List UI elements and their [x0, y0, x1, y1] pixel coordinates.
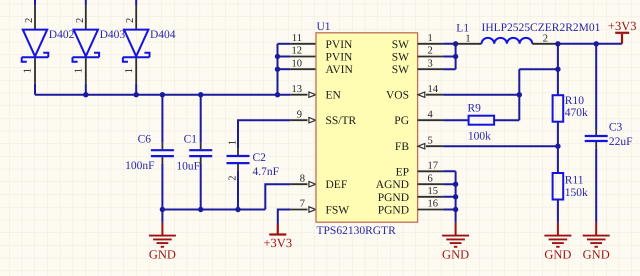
pin 7 lead FSW: [290, 209, 307, 211]
svg-text:SS/TR: SS/TR: [326, 115, 357, 127]
pin: C1 bottom lead: [200, 157, 202, 164]
svg-text:FSW: FSW: [326, 205, 350, 217]
wire: FB node to R11: [557, 146, 559, 173]
pin: L1 pin 1 lead: [456, 43, 482, 45]
ground under IC: [442, 223, 469, 247]
svg-text:10uF: 10uF: [176, 161, 200, 173]
pin: C6 top lead: [161, 143, 163, 150]
svg-text:D402: D402: [49, 29, 75, 41]
svg-text:1: 1: [228, 140, 239, 145]
svg-text:C1: C1: [184, 134, 198, 146]
svg-text:D404: D404: [150, 29, 176, 41]
wire: C2 lower: [237, 170, 239, 209]
pin 11 lead: [290, 43, 316, 45]
svg-text:1: 1: [23, 68, 34, 73]
svg-text:VOS: VOS: [386, 90, 409, 102]
svg-text:3: 3: [428, 58, 433, 69]
svg-text:+3V3: +3V3: [264, 236, 293, 250]
IC U1 body: [316, 33, 418, 222]
junction dot gnd column 208.3: [453, 207, 458, 212]
svg-text:SW: SW: [392, 39, 409, 51]
ground under C3: [583, 223, 610, 247]
svg-text:2: 2: [428, 46, 433, 57]
pin: C3 bottom lead: [595, 142, 597, 148]
svg-text:AVIN: AVIN: [326, 64, 354, 76]
pin 6 lead AGND: [418, 183, 444, 185]
svg-text:1: 1: [465, 34, 470, 45]
svg-text:EN: EN: [326, 90, 342, 102]
ground under C6: [149, 223, 176, 247]
svg-text:12: 12: [292, 46, 303, 57]
junction dot SW column mid: [453, 54, 458, 59]
wire: SW column: [455, 44, 457, 69]
pin: D402 pin 2 lead: [34, 6, 36, 30]
resistor R10: [553, 95, 564, 122]
pin 7 input arrow: [309, 207, 316, 212]
pin 12 lead: [290, 56, 316, 58]
diode D403: [73, 30, 100, 62]
junction dot C2 on bottom bus: [235, 207, 240, 212]
junction dot jog node: [555, 67, 560, 72]
pin 8 lead DEF: [290, 183, 307, 185]
resistor R9: [469, 116, 495, 125]
pin: D403 pin 1 lead: [85, 58, 87, 84]
svg-text:PGND: PGND: [378, 205, 409, 217]
svg-text:4.7nF: 4.7nF: [253, 166, 280, 178]
svg-text:7: 7: [300, 199, 305, 210]
junction dot C3 branch: [594, 41, 599, 46]
svg-text:GND: GND: [149, 247, 176, 261]
pin 8 input arrow: [309, 182, 316, 187]
pin: L1 pin 2 lead: [532, 43, 558, 45]
svg-text:DEF: DEF: [326, 179, 348, 191]
wire: C3 upper: [595, 44, 597, 130]
svg-text:D403: D403: [100, 29, 126, 41]
wire: PG to R9: [443, 119, 469, 121]
wire: D403 to bus: [85, 84, 87, 95]
pin: C2 top lead: [237, 148, 239, 155]
wire: bottom bus to GND: [161, 210, 163, 223]
pin 15 lead PGND: [418, 196, 444, 198]
wire: output node down: [557, 44, 559, 95]
wire: riser to PVIN/AVIN pins: [277, 44, 279, 95]
wire: C2 to SS/TR: [238, 120, 290, 148]
svg-text:R9: R9: [468, 103, 482, 115]
wire: bottom bus: [162, 209, 265, 211]
svg-text:100nF: 100nF: [125, 160, 154, 172]
svg-text:150k: 150k: [565, 187, 588, 199]
svg-text:GND: GND: [583, 247, 610, 261]
svg-text:U1: U1: [317, 21, 331, 33]
wire: D403 top stub: [85, 0, 87, 6]
svg-text:R11: R11: [565, 175, 584, 187]
capacitor C6: [151, 150, 174, 156]
junction dot riser on bus: [275, 92, 280, 97]
pin: C2 bottom lead: [237, 164, 239, 170]
pin 3 lead SW: [418, 68, 444, 70]
wire: VOS to column: [443, 94, 519, 96]
pin 13 lead EN: [290, 94, 307, 96]
svg-text:1: 1: [73, 68, 84, 73]
svg-text:C2: C2: [253, 152, 267, 164]
wire: FSW to +3V3: [278, 210, 291, 224]
wire: C6 upper: [161, 95, 163, 143]
pin 2 lead SW: [418, 56, 444, 58]
svg-text:16: 16: [428, 199, 439, 210]
wire: input bus to EN: [35, 94, 290, 96]
svg-text:470k: 470k: [565, 107, 588, 119]
wire: C1 lower: [200, 164, 202, 210]
svg-text:1: 1: [428, 33, 433, 44]
capacitor C3: [585, 136, 608, 141]
pin 13 input arrow: [309, 92, 316, 97]
svg-text:9: 9: [297, 109, 302, 120]
svg-text:10: 10: [292, 58, 303, 69]
svg-text:GND: GND: [442, 247, 469, 261]
pin 5 lead FB: [426, 145, 443, 147]
svg-text:FB: FB: [395, 141, 409, 153]
svg-text:2: 2: [24, 18, 35, 23]
pin: D404 pin 1 lead: [135, 58, 137, 84]
pin: C6 bottom lead: [161, 157, 163, 164]
junction dot gnd column 195.6: [453, 194, 458, 199]
svg-text:15: 15: [428, 186, 439, 197]
ground under R11: [544, 223, 571, 247]
svg-text:2: 2: [543, 34, 548, 45]
wire: FB to divider: [443, 145, 558, 147]
svg-text:GND: GND: [544, 247, 571, 261]
svg-text:4: 4: [428, 109, 434, 120]
junction dot C1 on bus: [198, 92, 203, 97]
wire: C1 upper: [200, 95, 202, 143]
junction dot VOS: [517, 92, 522, 97]
svg-text:SW: SW: [392, 64, 409, 76]
junction dot output node: [555, 41, 560, 46]
svg-text:+3V3: +3V3: [608, 19, 637, 33]
junction dot C1 on bottom bus: [198, 207, 203, 212]
junction dot D403 on bus: [83, 92, 88, 97]
wire: SW pins to column: [443, 44, 456, 69]
svg-text:13: 13: [292, 84, 303, 95]
pin: C3 top lead: [595, 130, 597, 136]
junction dot D404 on bus: [134, 92, 139, 97]
wire: R9 to column: [494, 119, 519, 121]
pin: D403 pin 2 lead: [85, 6, 87, 30]
wire: R10 top stub: [557, 94, 559, 96]
pin: C1 top lead: [200, 143, 202, 150]
wire: C3 lower: [595, 148, 597, 222]
junction dot C6 on bus: [160, 92, 165, 97]
svg-text:C6: C6: [138, 134, 152, 146]
junction dot pin12 riser: [275, 54, 280, 59]
svg-text:SW: SW: [392, 52, 409, 64]
wire: to pin 12: [278, 56, 291, 58]
svg-text:6: 6: [428, 173, 433, 184]
pin 14 input arrow: [418, 92, 425, 97]
pin 4 lead PG: [418, 119, 444, 121]
wire: R10 to FB node: [557, 122, 559, 147]
svg-text:PGND: PGND: [378, 192, 409, 204]
svg-text:R10: R10: [565, 95, 584, 107]
junction dot gnd column 183: [453, 182, 458, 187]
svg-text:22uF: 22uF: [609, 136, 633, 148]
pin 16 lead PGND: [418, 209, 444, 211]
svg-text:2: 2: [75, 18, 86, 23]
svg-text:PVIN: PVIN: [326, 52, 354, 64]
svg-text:PVIN: PVIN: [326, 39, 354, 51]
svg-text:11: 11: [292, 33, 302, 44]
diode D402: [22, 30, 49, 62]
wire: R11 to GND: [557, 200, 559, 223]
junction dot SW column top: [453, 41, 458, 46]
pin 9 input arrow: [309, 118, 316, 123]
diode D404: [123, 30, 150, 62]
svg-text:AGND: AGND: [376, 179, 409, 191]
wire: gnd pins to column: [443, 171, 456, 209]
wire: D404 top stub: [135, 0, 137, 6]
wire: bus riser to DEF: [265, 184, 290, 209]
svg-text:14: 14: [428, 84, 439, 95]
resistor R11: [553, 173, 564, 200]
svg-text:EP: EP: [396, 166, 409, 178]
svg-text:2: 2: [125, 18, 136, 23]
wire: VOS column: [518, 69, 520, 120]
pin 9 lead SS/TR: [290, 119, 307, 121]
svg-text:2: 2: [228, 176, 239, 181]
wire: C6 lower: [161, 164, 163, 210]
svg-text:PG: PG: [394, 115, 409, 127]
power port +3V3 bottom: [269, 224, 286, 235]
wire: D402 to bus: [34, 84, 36, 95]
pin: D402 pin 1 lead: [34, 58, 36, 84]
pin 5 input arrow: [418, 144, 425, 149]
wire: gnd column: [455, 171, 457, 222]
pin 14 lead VOS: [426, 94, 443, 96]
wire: D402 top stub: [34, 0, 36, 6]
svg-text:100k: 100k: [468, 131, 491, 143]
pin 17 lead EP: [418, 170, 444, 172]
svg-text:8: 8: [300, 173, 305, 184]
junction dot FB node: [555, 144, 560, 149]
wire: D404 to bus: [135, 84, 137, 95]
svg-text:C3: C3: [609, 122, 623, 134]
svg-text:IHLP2525CZER2R2M01: IHLP2525CZER2R2M01: [482, 22, 601, 34]
pin 1 lead SW: [418, 43, 444, 45]
svg-text:5: 5: [428, 135, 433, 146]
junction dot C6 on bottom bus: [160, 207, 165, 212]
svg-text:17: 17: [428, 161, 439, 172]
pin 10 lead: [290, 68, 316, 70]
svg-text:1: 1: [124, 68, 135, 73]
wire: output rail to +3V3: [558, 43, 622, 45]
inductor L1: [482, 38, 533, 44]
wire: to pin 10: [278, 68, 291, 70]
capacitor C2: [227, 156, 250, 163]
capacitor C1: [189, 150, 212, 156]
junction dot pin10 riser: [275, 67, 280, 72]
svg-text:TPS62130RGTR: TPS62130RGTR: [317, 225, 397, 237]
wire: to pin 11: [278, 43, 291, 45]
power port +3V3 right: [615, 33, 629, 44]
wire: jog to VOS column: [519, 68, 558, 70]
pin: D404 pin 2 lead: [135, 6, 137, 30]
